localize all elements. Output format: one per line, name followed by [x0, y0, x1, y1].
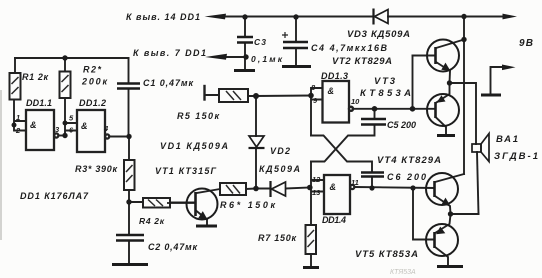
svg-text:DD1.1: DD1.1 — [26, 98, 52, 108]
svg-text:ВА1: ВА1 — [496, 134, 518, 145]
svg-text:&: & — [30, 120, 37, 130]
svg-text:C6 200: C6 200 — [387, 172, 426, 182]
svg-text:R6* 150к: R6* 150к — [220, 200, 275, 210]
svg-text:12: 12 — [312, 175, 321, 184]
svg-text:13: 13 — [312, 188, 321, 197]
svg-text:R4 2к: R4 2к — [139, 216, 165, 226]
svg-text:C4 4,7мкх16В: C4 4,7мкх16В — [311, 43, 388, 53]
svg-text:C1 0,47мк: C1 0,47мк — [143, 78, 193, 88]
svg-text:VD3 КД509А: VD3 КД509А — [347, 29, 410, 40]
svg-text:10: 10 — [351, 97, 360, 106]
svg-text:1: 1 — [16, 113, 20, 122]
svg-text:КТЯ53А: КТЯ53А — [390, 269, 416, 276]
svg-text:C2 0,47мк: C2 0,47мк — [148, 242, 197, 252]
svg-text:R3* 390к: R3* 390к — [75, 164, 117, 174]
svg-text:VD2: VD2 — [270, 146, 290, 156]
svg-text:DD1.4: DD1.4 — [322, 215, 346, 225]
svg-text:11: 11 — [351, 178, 359, 187]
svg-text:VT4 КТ829А: VT4 КТ829А — [377, 155, 441, 166]
svg-text:C5 200: C5 200 — [387, 120, 416, 130]
svg-text:C3: C3 — [254, 37, 266, 47]
svg-text:&: & — [81, 121, 88, 131]
svg-text:4: 4 — [103, 124, 109, 133]
svg-text:DD1.3: DD1.3 — [321, 71, 348, 81]
svg-text:R1 2к: R1 2к — [22, 72, 48, 82]
svg-text:К выв. 14 DD1: К выв. 14 DD1 — [126, 12, 200, 22]
svg-text:VT1 КТ315Г: VT1 КТ315Г — [155, 166, 216, 176]
svg-text:2: 2 — [15, 126, 21, 135]
svg-text:9В: 9В — [519, 38, 533, 49]
svg-text:VD1 КД509А: VD1 КД509А — [160, 141, 228, 151]
svg-text:&: & — [328, 86, 335, 96]
svg-text:R7 150к: R7 150к — [258, 233, 296, 243]
svg-text:VT2 КТ829А: VT2 КТ829А — [332, 56, 392, 67]
svg-text:DD1 К176ЛА7: DD1 К176ЛА7 — [20, 191, 89, 201]
svg-text:DD1.2: DD1.2 — [79, 98, 106, 108]
svg-text:VT3: VT3 — [374, 76, 396, 87]
svg-text:VT5 КТ853А: VT5 КТ853А — [355, 249, 418, 260]
svg-text:&: & — [330, 182, 337, 192]
svg-text:R2*: R2* — [83, 65, 101, 75]
